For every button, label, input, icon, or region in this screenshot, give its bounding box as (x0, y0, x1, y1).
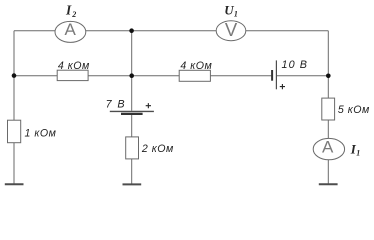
svg-text:4 кОм: 4 кОм (180, 60, 212, 72)
svg-text:5 кОм: 5 кОм (338, 104, 370, 116)
svg-text:I: I (65, 3, 72, 18)
svg-text:1: 1 (356, 149, 360, 158)
svg-text:V: V (225, 19, 238, 40)
svg-text:A: A (65, 20, 77, 39)
svg-text:4 кОм: 4 кОм (58, 60, 90, 72)
svg-text:1 кОм: 1 кОм (25, 127, 57, 139)
svg-text:1: 1 (234, 10, 238, 19)
svg-text:7 В: 7 В (106, 99, 126, 111)
svg-text:10 В: 10 В (282, 59, 309, 71)
svg-text:2 кОм: 2 кОм (141, 143, 174, 155)
svg-text:2: 2 (71, 10, 76, 19)
svg-text:A: A (322, 138, 334, 157)
svg-text:U: U (224, 3, 234, 18)
